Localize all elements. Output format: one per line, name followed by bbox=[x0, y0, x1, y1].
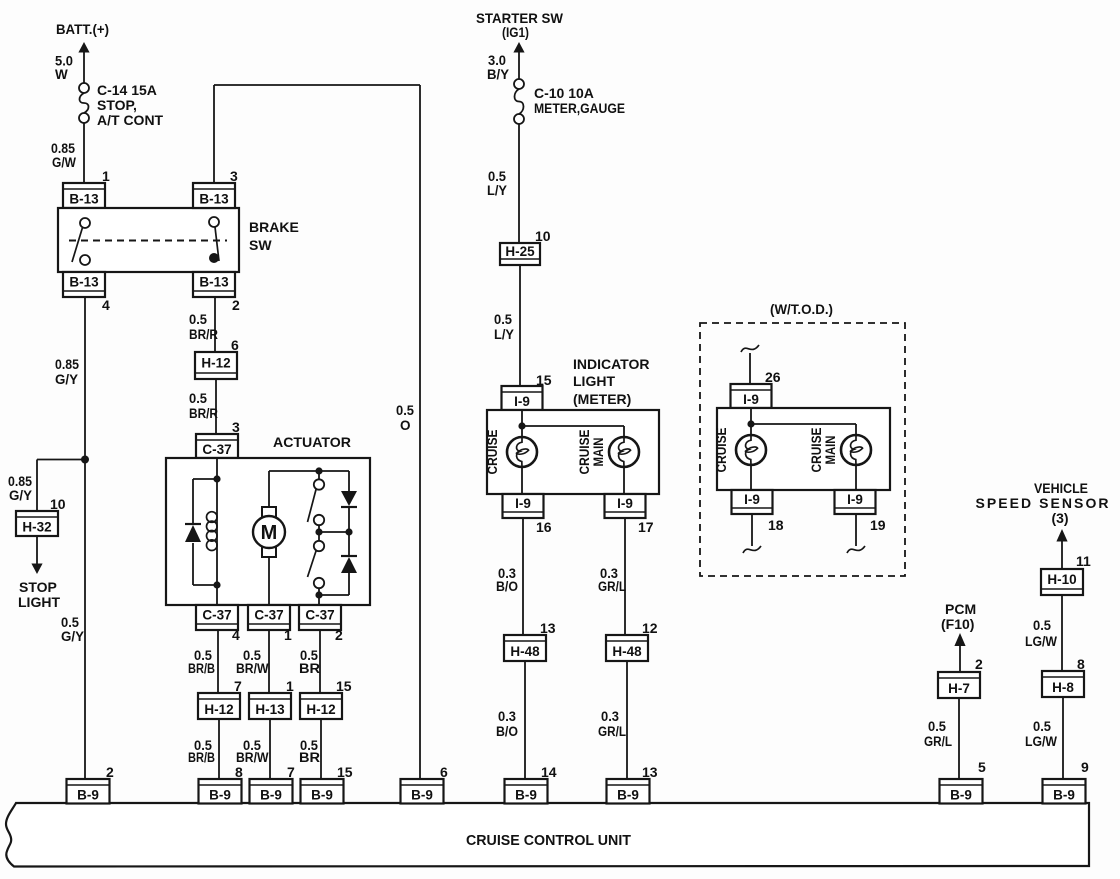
svg-text:G/Y: G/Y bbox=[55, 372, 78, 387]
svg-text:H-12: H-12 bbox=[201, 356, 230, 371]
svg-text:O: O bbox=[400, 418, 411, 433]
svg-text:A/T CONT: A/T CONT bbox=[97, 112, 164, 128]
svg-text:18: 18 bbox=[768, 517, 784, 533]
svg-text:ACTUATOR: ACTUATOR bbox=[273, 434, 351, 450]
svg-text:B-9: B-9 bbox=[77, 787, 99, 802]
svg-text:H-12: H-12 bbox=[306, 702, 335, 717]
svg-text:0.85: 0.85 bbox=[51, 141, 75, 156]
svg-text:L/Y: L/Y bbox=[487, 183, 507, 198]
svg-text:0.3: 0.3 bbox=[498, 709, 516, 724]
svg-text:10: 10 bbox=[50, 496, 66, 512]
svg-text:2: 2 bbox=[106, 764, 114, 780]
svg-text:SW: SW bbox=[249, 237, 272, 253]
svg-text:H-48: H-48 bbox=[612, 644, 642, 659]
svg-text:0.5: 0.5 bbox=[1033, 719, 1051, 734]
svg-text:LG/W: LG/W bbox=[1025, 734, 1057, 749]
svg-text:B-9: B-9 bbox=[1053, 787, 1075, 802]
svg-text:G/Y: G/Y bbox=[61, 629, 84, 644]
svg-text:CRUISE: CRUISE bbox=[713, 428, 729, 473]
svg-text:I-9: I-9 bbox=[515, 496, 531, 511]
svg-text:BR/W: BR/W bbox=[236, 750, 269, 765]
svg-text:2: 2 bbox=[975, 656, 983, 672]
svg-text:14: 14 bbox=[541, 764, 557, 780]
svg-text:BRAKE: BRAKE bbox=[249, 219, 299, 235]
svg-text:0.5: 0.5 bbox=[494, 312, 512, 327]
svg-text:BATT.(+): BATT.(+) bbox=[56, 21, 109, 37]
svg-text:I-9: I-9 bbox=[744, 492, 760, 507]
svg-text:B-13: B-13 bbox=[69, 192, 99, 207]
svg-text:CRUISE: CRUISE bbox=[484, 430, 500, 475]
svg-text:GR/L: GR/L bbox=[924, 734, 952, 749]
svg-text:13: 13 bbox=[642, 764, 658, 780]
svg-text:SPEED SENSOR: SPEED SENSOR bbox=[976, 495, 1109, 511]
svg-text:B-9: B-9 bbox=[209, 787, 231, 802]
svg-text:LG/W: LG/W bbox=[1025, 634, 1057, 649]
svg-text:11: 11 bbox=[1076, 553, 1091, 569]
svg-text:(W/T.O.D.): (W/T.O.D.) bbox=[770, 301, 833, 317]
svg-text:(3): (3) bbox=[1051, 510, 1068, 526]
svg-text:4: 4 bbox=[102, 297, 110, 313]
svg-text:26: 26 bbox=[765, 369, 781, 385]
svg-text:CRUISE CONTROL UNIT: CRUISE CONTROL UNIT bbox=[466, 833, 631, 849]
svg-text:MAIN: MAIN bbox=[590, 438, 606, 467]
svg-text:B-9: B-9 bbox=[260, 787, 282, 802]
svg-text:1: 1 bbox=[102, 168, 110, 184]
svg-text:3: 3 bbox=[230, 168, 238, 184]
svg-text:0.85: 0.85 bbox=[8, 474, 32, 489]
svg-text:6: 6 bbox=[440, 764, 448, 780]
svg-text:2: 2 bbox=[335, 627, 343, 643]
svg-text:5: 5 bbox=[978, 759, 986, 775]
svg-text:0.3: 0.3 bbox=[601, 709, 619, 724]
svg-text:B/O: B/O bbox=[496, 724, 518, 739]
svg-text:G/W: G/W bbox=[52, 155, 76, 170]
svg-text:VEHICLE: VEHICLE bbox=[1034, 480, 1088, 496]
svg-text:B-13: B-13 bbox=[199, 192, 229, 207]
svg-text:PCM: PCM bbox=[945, 601, 976, 617]
svg-text:0.5: 0.5 bbox=[189, 391, 207, 406]
svg-text:INDICATOR: INDICATOR bbox=[573, 356, 649, 372]
svg-text:BR: BR bbox=[299, 661, 320, 676]
svg-text:C-14 15A: C-14 15A bbox=[97, 82, 157, 98]
svg-text:0.85: 0.85 bbox=[55, 357, 79, 372]
svg-text:7: 7 bbox=[287, 764, 295, 780]
svg-text:2: 2 bbox=[232, 297, 240, 313]
svg-text:H-8: H-8 bbox=[1052, 680, 1074, 695]
svg-text:8: 8 bbox=[1077, 656, 1085, 672]
svg-text:B-13: B-13 bbox=[199, 275, 229, 290]
svg-text:(IG1): (IG1) bbox=[502, 24, 529, 40]
svg-text:8: 8 bbox=[235, 764, 243, 780]
svg-text:GR/L: GR/L bbox=[598, 579, 626, 594]
svg-text:H-48: H-48 bbox=[510, 644, 540, 659]
svg-text:B-13: B-13 bbox=[69, 275, 99, 290]
svg-text:MAIN: MAIN bbox=[822, 436, 838, 465]
svg-text:BR/R: BR/R bbox=[189, 406, 218, 421]
svg-text:0.5: 0.5 bbox=[928, 719, 946, 734]
svg-text:1: 1 bbox=[284, 627, 292, 643]
svg-text:B-9: B-9 bbox=[411, 787, 433, 802]
svg-text:BR/B: BR/B bbox=[188, 661, 215, 676]
svg-text:(F10): (F10) bbox=[941, 616, 974, 632]
svg-text:H-7: H-7 bbox=[948, 681, 970, 696]
svg-text:15: 15 bbox=[337, 764, 353, 780]
svg-text:3.0: 3.0 bbox=[488, 53, 506, 68]
svg-text:0.5: 0.5 bbox=[488, 169, 506, 184]
svg-text:BR/R: BR/R bbox=[189, 327, 218, 342]
svg-text:6: 6 bbox=[231, 337, 239, 353]
svg-text:H-13: H-13 bbox=[255, 702, 285, 717]
svg-text:H-25: H-25 bbox=[505, 244, 535, 259]
svg-text:10: 10 bbox=[535, 228, 551, 244]
svg-text:C-37: C-37 bbox=[202, 442, 231, 457]
svg-text:C-37: C-37 bbox=[202, 608, 231, 623]
svg-text:15: 15 bbox=[336, 678, 352, 694]
svg-text:7: 7 bbox=[234, 678, 242, 694]
svg-text:BR: BR bbox=[299, 750, 320, 765]
svg-text:W: W bbox=[55, 67, 68, 82]
svg-text:19: 19 bbox=[870, 517, 886, 533]
svg-text:L/Y: L/Y bbox=[494, 327, 514, 342]
svg-text:13: 13 bbox=[540, 620, 556, 636]
svg-text:C-37: C-37 bbox=[305, 608, 334, 623]
svg-text:4: 4 bbox=[232, 627, 240, 643]
svg-text:12: 12 bbox=[642, 620, 658, 636]
svg-text:C-37: C-37 bbox=[254, 608, 283, 623]
svg-text:B/O: B/O bbox=[496, 579, 518, 594]
svg-text:B-9: B-9 bbox=[950, 787, 972, 802]
svg-text:H-32: H-32 bbox=[22, 520, 51, 535]
svg-text:0.5: 0.5 bbox=[1033, 618, 1051, 633]
svg-text:I-9: I-9 bbox=[743, 392, 759, 407]
svg-text:0.5: 0.5 bbox=[189, 312, 207, 327]
svg-text:G/Y: G/Y bbox=[9, 488, 32, 503]
svg-text:I-9: I-9 bbox=[514, 394, 530, 409]
svg-text:16: 16 bbox=[536, 519, 552, 535]
svg-text:METER,GAUGE: METER,GAUGE bbox=[534, 100, 625, 116]
svg-text:3: 3 bbox=[232, 419, 240, 435]
svg-text:B/Y: B/Y bbox=[487, 67, 509, 82]
svg-text:H-12: H-12 bbox=[204, 702, 233, 717]
svg-text:17: 17 bbox=[638, 519, 654, 535]
svg-text:1: 1 bbox=[286, 678, 294, 694]
svg-text:LIGHT: LIGHT bbox=[18, 594, 60, 610]
svg-text:B-9: B-9 bbox=[617, 787, 639, 802]
svg-text:STOP,: STOP, bbox=[97, 97, 137, 113]
svg-text:B-9: B-9 bbox=[311, 787, 333, 802]
svg-text:0.5: 0.5 bbox=[61, 615, 79, 630]
svg-text:STOP: STOP bbox=[19, 579, 57, 595]
svg-text:I-9: I-9 bbox=[847, 492, 863, 507]
svg-text:H-10: H-10 bbox=[1047, 572, 1076, 587]
svg-text:0.5: 0.5 bbox=[396, 403, 414, 418]
svg-text:M: M bbox=[261, 522, 278, 544]
svg-text:LIGHT: LIGHT bbox=[573, 373, 615, 389]
svg-text:BR/W: BR/W bbox=[236, 661, 269, 676]
svg-text:I-9: I-9 bbox=[617, 496, 633, 511]
svg-text:BR/B: BR/B bbox=[188, 750, 215, 765]
svg-text:B-9: B-9 bbox=[515, 787, 537, 802]
svg-text:9: 9 bbox=[1081, 759, 1089, 775]
svg-text:(METER): (METER) bbox=[573, 391, 631, 407]
svg-text:C-10 10A: C-10 10A bbox=[534, 85, 594, 101]
svg-text:GR/L: GR/L bbox=[598, 724, 626, 739]
